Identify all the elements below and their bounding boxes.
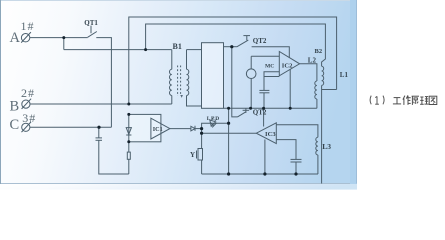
capacitor C2 xyxy=(259,89,269,91)
junction mid rail / MC circle lead xyxy=(249,107,252,110)
left border xyxy=(0,0,2,184)
coil L3 xyxy=(316,137,318,155)
switch QT2 contact xyxy=(246,36,248,41)
LED wire xyxy=(202,123,229,148)
transformer B1 left winding xyxy=(171,50,173,70)
capacitor C3 xyxy=(291,158,302,160)
transformer B1 core xyxy=(177,66,179,97)
wire C row xyxy=(30,126,112,128)
IC2 lower input wire xyxy=(264,72,279,90)
rectifier block U xyxy=(202,43,224,109)
bottom strip xyxy=(0,184,357,191)
IC3 top stub xyxy=(263,108,265,126)
wire IC3 out xyxy=(202,132,257,134)
svg-text:QT1: QT1 xyxy=(84,19,98,27)
junction mid rail / C2 lead xyxy=(262,107,265,110)
svg-text:3#: 3# xyxy=(22,111,36,125)
svg-text:B: B xyxy=(10,99,20,115)
mid rail xyxy=(224,107,317,109)
caption glyph zuo xyxy=(403,95,411,105)
junction C row / C1 tap xyxy=(97,126,100,129)
terminal A xyxy=(21,34,29,42)
svg-text:B2: B2 xyxy=(315,48,323,55)
junction inner rail / y50 wire xyxy=(144,48,147,51)
resistor R1 xyxy=(127,152,130,159)
right border of panel xyxy=(350,0,357,184)
transformer B1 right winding xyxy=(186,50,188,70)
junction node IC3 output xyxy=(200,132,203,135)
switch QT2b blade xyxy=(238,112,246,117)
core arrow B1 xyxy=(180,95,183,98)
svg-text:IC2: IC2 xyxy=(282,62,293,69)
op-amp IC3 xyxy=(256,123,276,144)
wire IC2 out xyxy=(300,64,317,81)
junction LED wire / sense chain xyxy=(227,122,230,125)
wire IC1 out xyxy=(170,128,191,130)
switch QT2b contact xyxy=(245,108,247,113)
caption glyph li xyxy=(420,97,429,105)
IC3 bottom wire xyxy=(276,140,296,160)
wire QT1 out xyxy=(96,38,111,128)
wire QT2 link down xyxy=(232,47,238,117)
wire L1 loop xyxy=(322,89,337,91)
LED symbol xyxy=(210,120,216,126)
junction mid rail / IC2 edge xyxy=(289,107,292,110)
terminal C xyxy=(22,123,30,131)
junction mid rail / sense chain xyxy=(227,107,230,110)
IC3 bottom stub xyxy=(264,140,266,175)
IC2 top wire xyxy=(251,55,279,57)
top border xyxy=(0,0,357,2)
junction node D2 cathode xyxy=(200,127,203,130)
svg-text:QT2: QT2 xyxy=(253,37,267,45)
svg-text:Y: Y xyxy=(190,151,195,159)
switch QT2 wire xyxy=(224,46,237,48)
wire bottom rail right xyxy=(202,173,318,175)
junction phase A tap xyxy=(62,36,65,39)
junction bottom rail / C3 lead xyxy=(294,172,297,175)
coil L3 upper xyxy=(315,81,317,99)
wire B row xyxy=(30,103,172,105)
terminal B xyxy=(22,100,30,108)
svg-text:L2: L2 xyxy=(308,56,317,64)
wire y50 xyxy=(64,49,172,51)
caption glyph gong xyxy=(393,98,401,104)
switch QT2 blade xyxy=(237,40,249,47)
svg-text:IC1: IC1 xyxy=(153,126,163,133)
svg-text:1#: 1# xyxy=(21,19,35,33)
caption glyph yuan xyxy=(412,96,419,105)
wire A drop xyxy=(63,38,65,50)
inner top rail xyxy=(146,24,326,66)
crystal Y xyxy=(198,149,203,161)
svg-text:LED: LED xyxy=(207,116,220,122)
wire sense chain xyxy=(228,108,230,174)
IC3 top wire xyxy=(276,125,318,138)
junction QT2 wire tap xyxy=(230,45,233,48)
junction B row / left drop xyxy=(127,103,130,106)
junction bottom rail / sense chain xyxy=(227,172,230,175)
junction bottom rail / IC3 stub xyxy=(263,172,266,175)
svg-text:2#: 2# xyxy=(21,86,35,100)
svg-text:B1: B1 xyxy=(173,42,182,51)
IC2 right edge xyxy=(289,69,291,108)
wire A row xyxy=(30,37,88,39)
svg-text:L1: L1 xyxy=(340,71,349,79)
wire QT2 out xyxy=(252,47,290,58)
diode D1 xyxy=(126,128,131,135)
outer top rail xyxy=(129,17,337,104)
switch QT1 blade xyxy=(88,32,97,38)
switch QT1 actuator stem xyxy=(90,26,92,34)
oscillator MC circle xyxy=(246,69,256,79)
op-amp IC1 block xyxy=(129,114,161,141)
svg-text:QT2: QT2 xyxy=(253,109,267,117)
junction IC1 lower input xyxy=(127,140,130,143)
diode D2 xyxy=(191,126,195,131)
background panel xyxy=(0,0,445,191)
capacitor C1 xyxy=(96,137,103,139)
wire B1 right top xyxy=(187,49,202,51)
svg-text:MC: MC xyxy=(265,63,274,69)
caption glyph tu xyxy=(429,96,437,104)
svg-text:IC3: IC3 xyxy=(265,131,276,138)
coil L2 (B2 primary) xyxy=(322,66,324,85)
IC2 bottom edge xyxy=(264,76,279,78)
svg-text:L3: L3 xyxy=(322,142,331,151)
junction IC1 upper input xyxy=(127,113,130,116)
svg-text:C: C xyxy=(10,117,20,133)
wire L2 output down to edge xyxy=(321,85,323,183)
caption (1) gong zuo yuan li tu xyxy=(370,96,384,105)
svg-text:A: A xyxy=(10,30,21,46)
op-amp IC2 xyxy=(279,52,299,76)
bottom strip divider xyxy=(0,183,357,185)
